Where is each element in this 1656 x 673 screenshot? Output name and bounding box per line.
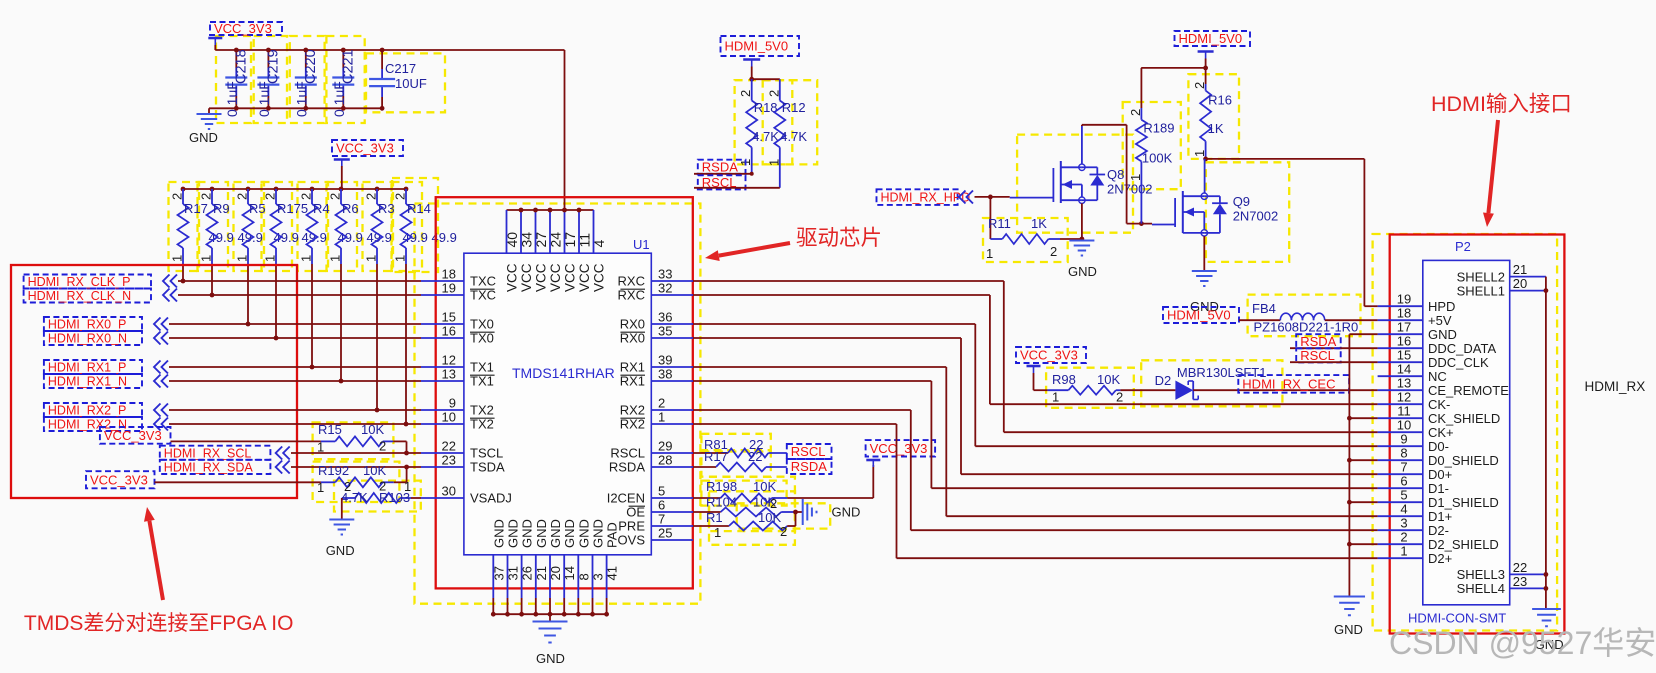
svg-text:RSDA: RSDA — [1300, 334, 1336, 349]
svg-text:2: 2 — [379, 439, 386, 454]
svg-text:1: 1 — [658, 410, 665, 425]
svg-text:GND: GND — [591, 519, 606, 548]
wire HDMI_RX1_N — [169, 380, 421, 382]
P2 pin 18 +5V — [1378, 306, 1452, 328]
net label RSCL (chip side) — [787, 444, 832, 459]
svg-text:10K: 10K — [758, 510, 781, 525]
svg-text:C220: C220 — [303, 49, 319, 84]
wire RSCL to DDC_CLK — [1290, 361, 1378, 363]
resistor R98 10K — [1048, 372, 1124, 405]
svg-text:CK+: CK+ — [1428, 425, 1454, 440]
svg-text:13: 13 — [1397, 376, 1411, 391]
net label RSCL (pull-up) — [698, 175, 746, 190]
svg-text:11: 11 — [1397, 404, 1411, 419]
wire RSDA pull-up — [694, 172, 754, 176]
driver chip region red outline — [436, 197, 693, 588]
transistor Q9 2N7002 — [1152, 191, 1278, 236]
svg-text:1: 1 — [404, 479, 411, 494]
svg-text:CK-: CK- — [1428, 397, 1450, 412]
U1 pin 31 GND — [505, 519, 520, 616]
net label RSDA (chip side) — [787, 459, 832, 474]
net label VCC_3V3 (CEC) — [1016, 347, 1086, 373]
wire R103 to VSADJ — [411, 497, 421, 499]
svg-text:19: 19 — [442, 281, 456, 296]
resistor R15 10K — [317, 422, 393, 455]
svg-text:49.9: 49.9 — [403, 230, 428, 245]
resistor R17 49.9 — [170, 187, 234, 264]
ground (Q8) — [1068, 241, 1097, 280]
svg-text:R6: R6 — [342, 201, 359, 216]
net label HDMI_RX2_N — [44, 417, 168, 432]
svg-text:HDMI_RX1_P: HDMI_RX1_P — [48, 361, 127, 375]
svg-text:GND: GND — [506, 519, 521, 548]
svg-text:Q9: Q9 — [1233, 194, 1250, 209]
P2 pin 5 D1_SHIELD — [1378, 488, 1499, 510]
svg-text:TX0: TX0 — [470, 331, 494, 346]
svg-text:10K: 10K — [363, 463, 386, 478]
ground (shell) — [1532, 609, 1563, 652]
svg-text:1: 1 — [199, 255, 214, 262]
svg-text:HDMI-CON-SMT: HDMI-CON-SMT — [1408, 611, 1506, 626]
svg-text:GND: GND — [832, 505, 861, 520]
svg-text:10: 10 — [1397, 418, 1411, 433]
svg-text:CE_REMOTE: CE_REMOTE — [1428, 383, 1509, 398]
svg-text:12: 12 — [1397, 390, 1411, 405]
svg-text:16: 16 — [1397, 334, 1411, 349]
svg-text:VCC: VCC — [592, 263, 607, 292]
svg-text:14: 14 — [562, 566, 577, 580]
U1 pin 37 GND — [491, 519, 506, 616]
ground (U1) — [533, 622, 568, 667]
svg-text:RSDA: RSDA — [702, 159, 738, 174]
svg-text:FB4: FB4 — [1252, 301, 1276, 316]
svg-text:VCC: VCC — [548, 263, 563, 292]
net label HDMI_RX2_P — [44, 403, 168, 418]
U1 pin 22 TSCL — [421, 439, 503, 461]
svg-text:10K: 10K — [753, 479, 776, 494]
svg-text:9: 9 — [449, 396, 456, 411]
svg-text:HDMI_RX_SCL: HDMI_RX_SCL — [164, 446, 252, 460]
wire R11 to Q8 source — [1060, 237, 1084, 242]
net label VCC_3V3 (cap bank) — [208, 21, 282, 45]
svg-text:VCC: VCC — [577, 263, 592, 292]
wire R3 to line — [375, 264, 380, 412]
svg-text:R16: R16 — [1208, 93, 1232, 108]
capacitor C217 10UF — [369, 48, 427, 111]
svg-text:1: 1 — [1128, 174, 1143, 181]
svg-text:36: 36 — [658, 310, 672, 325]
svg-text:VCC_3V3: VCC_3V3 — [214, 21, 272, 36]
svg-text:26: 26 — [520, 566, 535, 580]
svg-text:22: 22 — [442, 439, 456, 454]
svg-text:D0+: D0+ — [1428, 467, 1452, 482]
U1 pin 38 RX1 — [620, 367, 693, 389]
svg-text:GND: GND — [326, 543, 355, 558]
resistor R103 4.7K — [341, 479, 411, 505]
svg-text:37: 37 — [491, 566, 506, 580]
svg-text:8: 8 — [1400, 446, 1407, 461]
svg-text:GND: GND — [520, 519, 535, 548]
net label HDMI_RX_CLK_P — [24, 275, 177, 290]
svg-text:20: 20 — [548, 566, 563, 580]
svg-text:38: 38 — [658, 367, 672, 382]
svg-text:0.1uF: 0.1uF — [293, 81, 309, 117]
svg-text:2: 2 — [344, 479, 351, 494]
svg-text:VCC: VCC — [505, 263, 520, 292]
svg-text:GND: GND — [1068, 264, 1097, 279]
svg-text:18: 18 — [1397, 306, 1411, 321]
svg-text:49.9: 49.9 — [338, 230, 363, 245]
annotation driver chip — [705, 226, 882, 261]
svg-text:D2-: D2- — [1428, 523, 1449, 538]
svg-text:2: 2 — [1400, 530, 1407, 545]
P2 pin 1 D2+ — [1378, 544, 1453, 566]
ground (OE/PRE) — [803, 499, 861, 525]
wire HDMI_RX_SDA — [291, 465, 421, 470]
svg-text:2: 2 — [1192, 82, 1207, 89]
svg-text:R189: R189 — [1143, 121, 1174, 136]
wire RX1_N to connector — [693, 381, 1378, 488]
svg-text:R98: R98 — [1052, 372, 1076, 387]
svg-text:28: 28 — [658, 453, 672, 468]
svg-text:RSCL: RSCL — [610, 446, 645, 461]
resistor R18 4.7K — [738, 79, 779, 174]
svg-text:1: 1 — [328, 255, 343, 262]
P2 pin 14 NC — [1378, 362, 1447, 384]
svg-text:GND: GND — [491, 519, 506, 548]
svg-text:R3: R3 — [378, 201, 395, 216]
svg-text:2: 2 — [263, 193, 278, 200]
svg-text:HDMI_RX: HDMI_RX — [1585, 379, 1646, 394]
svg-text:33: 33 — [658, 267, 672, 282]
resistor R189 100K — [1128, 68, 1175, 224]
svg-text:21: 21 — [534, 566, 549, 580]
svg-text:29: 29 — [658, 439, 672, 454]
svg-text:RSCL: RSCL — [1300, 348, 1335, 363]
wire VCC_3V3 to R98 — [1034, 373, 1048, 390]
svg-text:RX0: RX0 — [620, 317, 645, 332]
svg-text:SHELL1: SHELL1 — [1457, 283, 1505, 298]
U1 pin 10 TX2 — [421, 410, 495, 432]
svg-text:22: 22 — [748, 449, 762, 464]
svg-text:2N7002: 2N7002 — [1107, 182, 1153, 197]
capacitor C218 0.1uF — [224, 48, 250, 117]
wire HDMI_RX0_N — [169, 337, 421, 339]
ground (cap bank) — [189, 114, 222, 145]
wire array VCC rail — [183, 166, 406, 189]
wire HDMI_RX2_N — [169, 423, 421, 425]
svg-text:49.9: 49.9 — [238, 230, 263, 245]
U1 pin 9 TX2 — [421, 396, 494, 418]
wire R9 to line — [210, 264, 215, 297]
P2 pin 19 HPD — [1378, 292, 1456, 314]
U1 pin 20 GND — [548, 519, 563, 616]
svg-text:18: 18 — [442, 267, 456, 282]
svg-text:TMDS141RHAR: TMDS141RHAR — [512, 365, 615, 381]
svg-text:49.9: 49.9 — [302, 230, 327, 245]
svg-text:3: 3 — [591, 573, 606, 580]
svg-text:R4: R4 — [313, 201, 330, 216]
svg-text:RSCL: RSCL — [791, 444, 826, 459]
wire HDMI_5V0 to R18/R12 — [749, 67, 780, 82]
wire HPD to R11 — [989, 197, 991, 239]
svg-text:Q8: Q8 — [1107, 167, 1124, 182]
svg-text:TSDA: TSDA — [470, 460, 505, 475]
svg-text:6: 6 — [1400, 474, 1407, 489]
diode D2 MBR130LSFT1 — [1155, 365, 1267, 400]
wire VCC_3V3 to R192 — [155, 481, 321, 483]
U1 pin 21 GND — [533, 519, 548, 616]
U1 pin 36 RX0 — [620, 310, 693, 332]
svg-text:PRE: PRE — [618, 519, 645, 534]
svg-text:NC: NC — [1428, 369, 1447, 384]
wire Q9 source to ground — [1203, 236, 1205, 270]
svg-text:1: 1 — [714, 525, 721, 540]
resistor R5 49.9 — [235, 187, 299, 264]
wire Q8 source to ground — [1081, 203, 1083, 240]
wire RX2_N to connector — [693, 424, 1378, 558]
svg-text:SHELL4: SHELL4 — [1457, 581, 1505, 596]
capacitor C219 0.1uF — [256, 48, 282, 117]
svg-text:20: 20 — [1513, 276, 1527, 291]
svg-text:0.1uF: 0.1uF — [224, 81, 240, 117]
svg-text:2: 2 — [1050, 244, 1057, 259]
svg-text:1: 1 — [1192, 150, 1207, 157]
svg-text:R11: R11 — [988, 216, 1011, 231]
svg-text:1: 1 — [766, 159, 781, 166]
svg-text:VCC_3V3: VCC_3V3 — [90, 472, 148, 487]
svg-text:2: 2 — [328, 193, 343, 200]
svg-text:OE: OE — [626, 505, 645, 520]
svg-text:31: 31 — [506, 566, 521, 580]
svg-text:R17: R17 — [704, 449, 728, 464]
svg-text:HDMI_RX_CLK_P: HDMI_RX_CLK_P — [28, 275, 131, 289]
resistor R16 1K — [1192, 68, 1232, 159]
resistor R12 4.7K — [766, 79, 807, 188]
svg-text:GND: GND — [536, 651, 565, 666]
U1 pin 12 TX1 — [421, 353, 494, 375]
U1 pin 3 GND — [590, 519, 605, 616]
svg-text:HDMI输入接口: HDMI输入接口 — [1431, 92, 1572, 116]
svg-text:1: 1 — [235, 255, 250, 262]
wire R198 to VCC_3V3 — [787, 465, 873, 498]
svg-text:4.7K: 4.7K — [780, 129, 807, 144]
svg-text:PZ1608D221-1R0: PZ1608D221-1R0 — [1254, 320, 1359, 335]
svg-text:HDMI_RX_CEC: HDMI_RX_CEC — [1242, 377, 1335, 392]
U1 pin 23 TSDA — [421, 453, 505, 475]
svg-text:10K: 10K — [361, 422, 384, 437]
svg-text:RX2: RX2 — [620, 417, 645, 432]
svg-text:1: 1 — [299, 255, 314, 262]
svg-text:GND: GND — [548, 519, 563, 548]
wire HDMI_5V0 to FB4 — [1239, 319, 1280, 321]
svg-text:D1+: D1+ — [1428, 509, 1452, 524]
svg-text:1: 1 — [393, 255, 408, 262]
svg-text:10K: 10K — [1097, 372, 1120, 387]
wire RXC to connector — [693, 281, 1378, 432]
svg-text:14: 14 — [1397, 362, 1411, 377]
wire R98 to D2 — [1120, 389, 1175, 391]
wire HDMI_RX_HPD to Q8 gate — [975, 195, 1010, 200]
svg-text:5: 5 — [658, 484, 665, 499]
svg-text:15: 15 — [442, 310, 456, 325]
U1 pin 15 TX0 — [421, 310, 494, 332]
svg-text:21: 21 — [1513, 262, 1527, 277]
svg-text:TXC: TXC — [470, 288, 496, 303]
svg-text:C219: C219 — [265, 49, 281, 84]
U1 pin 6 OE — [626, 498, 693, 520]
P2 pin 7 D0+ — [1378, 460, 1453, 482]
U1 pin 26 GND — [519, 519, 534, 616]
HDMI connector region red outline — [1390, 235, 1565, 634]
P2 pin 13 CE_REMOTE — [1378, 376, 1510, 398]
svg-text:HDMI_5V0: HDMI_5V0 — [725, 39, 789, 54]
svg-text:32: 32 — [658, 281, 672, 296]
svg-text:R5: R5 — [249, 201, 266, 216]
wire R103 to ground — [341, 498, 343, 519]
svg-text:HDMI_5V0: HDMI_5V0 — [1167, 308, 1231, 323]
svg-text:R17: R17 — [184, 201, 208, 216]
U1 pin 25 OVS — [618, 526, 693, 548]
wire HDMI_RX2_P — [169, 409, 421, 411]
svg-text:HPD: HPD — [1428, 299, 1455, 314]
net label HDMI_5V0 (connector) — [1163, 307, 1239, 323]
svg-text:C218: C218 — [233, 49, 249, 84]
svg-text:0.1uF: 0.1uF — [256, 81, 272, 117]
wire R17 to line — [181, 264, 186, 283]
svg-text:12: 12 — [442, 353, 456, 368]
svg-text:22: 22 — [1513, 560, 1527, 575]
svg-text:30: 30 — [442, 484, 456, 499]
svg-text:49.9: 49.9 — [367, 230, 392, 245]
net label RSDA (pull-up) — [698, 159, 746, 174]
svg-text:GND: GND — [1428, 327, 1457, 342]
svg-text:HDMI_RX1_N: HDMI_RX1_N — [48, 375, 127, 389]
transistor Q8 2N7002 — [1010, 161, 1153, 203]
svg-text:4: 4 — [1400, 502, 1407, 517]
U1 pin 41 PAD — [604, 522, 619, 616]
svg-text:RX1: RX1 — [620, 360, 645, 375]
svg-text:2: 2 — [364, 193, 379, 200]
svg-text:1: 1 — [263, 255, 278, 262]
svg-text:1: 1 — [1400, 544, 1407, 559]
resistor R3 49.9 — [364, 187, 428, 264]
svg-text:VCC_3V3: VCC_3V3 — [1020, 348, 1078, 363]
wire VCC_3V3 to R15 — [171, 440, 321, 442]
svg-text:4: 4 — [591, 240, 607, 248]
net label HDMI_RX_SCL — [160, 446, 290, 461]
svg-text:PAD: PAD — [605, 522, 620, 548]
svg-text:5: 5 — [1400, 488, 1407, 503]
P2 pin 17 GND — [1378, 320, 1457, 342]
ferrite bead FB4 PZ1608D221-1R0 — [1252, 301, 1358, 335]
wire U1 ground rail — [493, 614, 606, 621]
U1 pin 2 RX2 — [620, 396, 693, 418]
svg-text:VCC_3V3: VCC_3V3 — [104, 428, 162, 443]
svg-text:TX2: TX2 — [470, 403, 494, 418]
wire RX2 to connector — [693, 410, 1378, 530]
svg-text:RX0: RX0 — [620, 331, 645, 346]
svg-text:HDMI_RX0_N: HDMI_RX0_N — [48, 332, 127, 346]
svg-text:D1-: D1- — [1428, 481, 1449, 496]
resistor R192 10K — [317, 463, 394, 495]
U1 pin 1 RX2 — [620, 410, 693, 432]
P2 pin 3 D2- — [1378, 516, 1449, 538]
net label RSCL (connector side) — [1296, 348, 1341, 363]
svg-text:I2CEN: I2CEN — [607, 491, 645, 506]
svg-text:OVS: OVS — [618, 533, 646, 548]
net label HDMI_RX1_P — [44, 360, 168, 375]
wire R175 to line — [274, 264, 279, 340]
net label HDMI_5V0 (R18/R12) — [721, 36, 800, 67]
P2 pin 12 CK- — [1378, 390, 1451, 412]
U1 pin 8 GND — [576, 519, 591, 616]
P2 pin 11 CK_SHIELD — [1378, 404, 1501, 426]
net label VCC_3V3 (R15 pull-up) — [100, 427, 171, 444]
svg-text:GND: GND — [576, 519, 591, 548]
selection highlight boxes (yellow dashed) — [169, 36, 1558, 631]
svg-text:2: 2 — [770, 496, 777, 511]
net label RSDA (connector side) — [1296, 334, 1341, 349]
svg-text:RSDA: RSDA — [609, 460, 645, 475]
svg-text:2: 2 — [658, 396, 665, 411]
svg-text:R15: R15 — [318, 422, 342, 437]
U1 pin 14 GND — [562, 519, 577, 616]
capacitor C220 0.1uF — [293, 48, 319, 117]
wire R4 to line — [310, 264, 315, 369]
resistor R11 1K — [986, 216, 1060, 261]
ground (Q9) — [1190, 271, 1219, 314]
svg-text:35: 35 — [658, 324, 672, 339]
net label HDMI_5V0 (HPD) — [1175, 31, 1251, 59]
svg-text:49.9: 49.9 — [274, 230, 299, 245]
svg-text:7: 7 — [1400, 460, 1407, 475]
svg-text:VCC_3V3: VCC_3V3 — [336, 141, 394, 156]
U1 pin 17 VCC — [562, 208, 578, 292]
svg-text:TX0: TX0 — [470, 317, 494, 332]
svg-text:U1: U1 — [633, 237, 650, 252]
wire R192 to TSDA — [394, 467, 407, 482]
resistor R198 10K — [693, 479, 787, 503]
wire R14 to line — [404, 264, 409, 426]
U1 pin 4 VCC — [591, 210, 607, 292]
svg-text:39: 39 — [658, 353, 672, 368]
svg-text:SHELL2: SHELL2 — [1457, 269, 1505, 284]
svg-text:8: 8 — [576, 573, 591, 580]
svg-text:7: 7 — [658, 512, 665, 527]
U1 pin 27 VCC — [533, 208, 549, 292]
resistor R81 22 — [693, 437, 787, 458]
svg-text:1: 1 — [1052, 390, 1059, 405]
ground (shield) — [1334, 597, 1365, 638]
svg-text:HDMI_RX_SDA: HDMI_RX_SDA — [164, 460, 254, 474]
svg-text:1: 1 — [986, 246, 993, 261]
svg-text:25: 25 — [658, 526, 672, 541]
svg-text:HDMI_RX0_P: HDMI_RX0_P — [48, 318, 127, 332]
wire HDMI_5V0 rail (HPD) — [1141, 59, 1208, 71]
net label HDMI_RX_SDA — [160, 460, 290, 475]
P2 pin 10 CK+ — [1378, 418, 1454, 440]
annotation HDMI input port — [1431, 92, 1572, 227]
svg-text:DDC_CLK: DDC_CLK — [1428, 355, 1489, 370]
svg-text:TSCL: TSCL — [470, 446, 503, 461]
svg-text:17: 17 — [1397, 320, 1411, 335]
svg-text:13: 13 — [442, 367, 456, 382]
svg-text:R198: R198 — [706, 479, 737, 494]
svg-text:RXC: RXC — [618, 288, 645, 303]
svg-text:1: 1 — [317, 480, 324, 495]
svg-text:2: 2 — [738, 90, 753, 97]
